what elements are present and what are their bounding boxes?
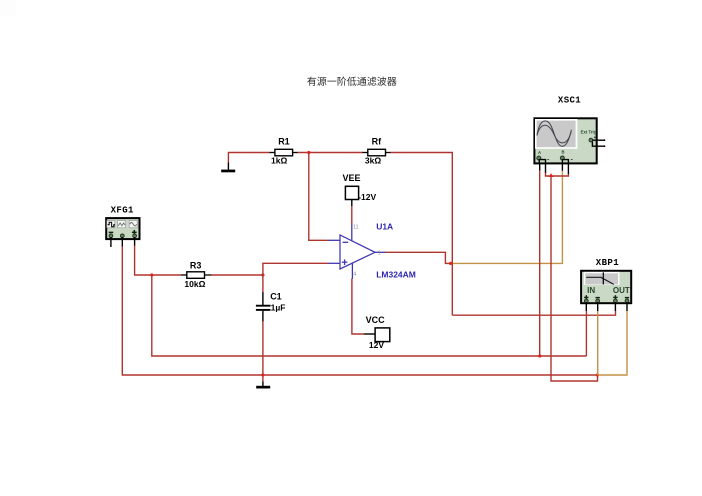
wire scope ground link <box>546 172 569 176</box>
svg-text:R1: R1 <box>278 137 290 147</box>
wire orange XBP1 IN- <box>597 311 599 375</box>
wire R1-to-Rf <box>298 152 363 154</box>
wire R3 to node A <box>211 274 263 276</box>
node inverting junction <box>307 151 310 154</box>
svg-text:12V: 12V <box>369 340 384 350</box>
wire VEE to pin 11 <box>351 206 353 225</box>
wire op-amp output to output node <box>386 252 453 263</box>
wire XBP1 OUT+ stub <box>614 302 616 311</box>
wire node A down to C1 <box>262 275 264 293</box>
node A junction <box>261 273 264 276</box>
svg-text:A: A <box>538 150 541 155</box>
svg-text:1µF: 1µF <box>271 302 286 312</box>
svg-text:11: 11 <box>353 225 359 231</box>
svg-text:B: B <box>562 150 565 155</box>
wire inverting input drop <box>309 153 329 241</box>
svg-text:XSC1: XSC1 <box>558 95 581 105</box>
node scope ground arrow <box>548 173 553 177</box>
resistor R1 <box>270 137 299 166</box>
wire scope B- stub <box>567 164 569 175</box>
wire XFG1 common stub <box>121 237 123 247</box>
ground main <box>256 375 270 389</box>
wire XFG1 plus to R3 <box>135 245 182 275</box>
wire ground-to-R1 horizontal <box>228 153 270 164</box>
wire XBP1 IN+ drop <box>585 311 587 356</box>
function generator XFG1 <box>106 205 139 239</box>
wire scope B internal <box>561 159 563 165</box>
svg-text:1kΩ: 1kΩ <box>271 156 287 166</box>
wire source rail to XBP1 IN+ <box>152 275 587 356</box>
wire XBP1 OUT- stub <box>626 302 628 311</box>
svg-text:VEE: VEE <box>343 173 361 183</box>
bode plotter XBP1 <box>581 258 631 303</box>
wire node A to plus input <box>263 263 329 275</box>
op-amp U1A <box>328 222 416 280</box>
node ground junction C1 <box>261 373 264 376</box>
wire XFG1 minus stub <box>110 237 112 247</box>
corner artifact <box>0 0 16 16</box>
wire scope ext trig stubs <box>592 139 605 147</box>
svg-text:XBP1: XBP1 <box>596 258 619 268</box>
node scope A junction <box>538 354 541 357</box>
wire scope A internal <box>538 159 540 165</box>
capacitor C1 <box>256 291 286 321</box>
node output junction <box>449 262 452 265</box>
svg-text:1: 1 <box>378 251 381 257</box>
svg-text:XFG1: XFG1 <box>111 205 134 215</box>
svg-text:-12V: -12V <box>358 192 376 202</box>
wire XBP1 IN+ stub <box>585 302 587 311</box>
wire XFG1 common to ground rail <box>122 246 597 375</box>
svg-text:Rf: Rf <box>372 137 382 147</box>
wire C1 to ground rail <box>262 321 264 375</box>
svg-text:IN: IN <box>587 286 595 295</box>
svg-text:10kΩ: 10kΩ <box>184 279 205 289</box>
VCC supply <box>364 315 390 350</box>
wire pin 4 to VCC <box>352 278 365 334</box>
node ground-instr junction <box>596 373 599 376</box>
title 有源一阶低通滤波器 <box>307 77 396 86</box>
svg-text:VCC: VCC <box>366 315 386 325</box>
wire XBP1 IN- stub <box>597 302 599 311</box>
svg-text:U1A: U1A <box>376 222 393 232</box>
wire scope B- internal <box>563 160 569 165</box>
svg-text:R3: R3 <box>190 260 202 270</box>
svg-text:LM324AM: LM324AM <box>376 270 416 280</box>
VEE supply <box>343 173 377 207</box>
oscilloscope XSC1 <box>534 95 596 163</box>
wire orange output to scope B <box>453 170 563 263</box>
svg-text:OUT: OUT <box>613 286 630 295</box>
wire scope A+ drop <box>539 170 541 356</box>
wire XFG1 plus stub <box>134 237 136 246</box>
wire Rf-to-feedback corner <box>391 153 453 316</box>
wire output node to XBP1 OUT+ <box>452 311 615 316</box>
node source junction <box>150 273 153 276</box>
wire scope ground down <box>551 176 598 381</box>
wire scope B+ stub <box>561 164 563 171</box>
wire scope A+ stub <box>539 164 541 171</box>
svg-text:C1: C1 <box>270 291 282 301</box>
resistor R3 <box>181 260 211 289</box>
svg-text:Ext Trig: Ext Trig <box>581 130 597 135</box>
resistor Rf <box>362 137 391 166</box>
wire scope A- internal <box>540 160 546 165</box>
svg-text:4: 4 <box>353 272 356 278</box>
ground near R1 <box>221 163 235 173</box>
wire orange XBP1 OUT- <box>598 311 627 375</box>
svg-text:3kΩ: 3kΩ <box>365 156 381 166</box>
wire scope A- stub <box>545 164 547 173</box>
